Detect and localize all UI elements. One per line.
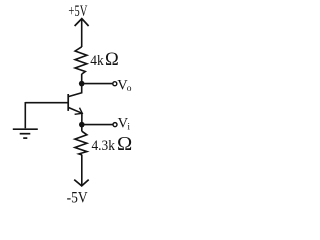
svg-text:i: i	[127, 122, 130, 132]
resistor R1	[75, 47, 87, 74]
svg-text:4k: 4k	[90, 53, 104, 69]
wire: ground stem	[24, 102, 26, 128]
svg-text:Ω: Ω	[105, 50, 119, 70]
transistor Q1 base bar	[67, 94, 69, 111]
resistor R2	[75, 131, 87, 155]
wire: collector lead	[69, 84, 82, 97]
wire: R1 bottom to collector node	[81, 74, 83, 84]
wire: base lead	[25, 102, 67, 104]
svg-text:-5V: -5V	[67, 189, 89, 206]
svg-text:o: o	[127, 84, 132, 94]
svg-text:+5V: +5V	[68, 3, 88, 20]
label Vi	[118, 116, 131, 133]
wire: node to Vi terminal	[82, 124, 113, 126]
-5V supply arrow	[74, 180, 89, 186]
node: collector junction	[79, 81, 85, 87]
wire: node to Vo terminal	[82, 83, 113, 85]
wire: emitter to input node	[81, 113, 83, 125]
+5V supply arrow	[75, 19, 89, 47]
terminal Vo (open circle)	[113, 82, 117, 86]
node: emitter junction	[79, 122, 85, 128]
terminal Vi (open circle)	[113, 123, 117, 127]
ground	[13, 129, 38, 138]
label Vo	[117, 77, 132, 94]
svg-text:4.3k: 4.3k	[92, 138, 116, 154]
wire: R2 bottom to -5V arrow	[81, 155, 83, 185]
transistor Q1 emitter with arrow	[69, 108, 83, 115]
wire: node to R2 top	[81, 125, 83, 132]
svg-text:Ω: Ω	[117, 133, 132, 155]
